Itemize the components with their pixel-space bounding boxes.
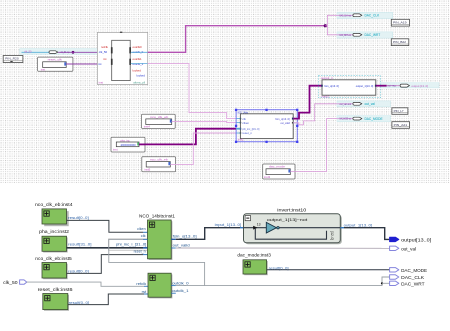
svg-text:inst5: inst5 — [144, 168, 150, 172]
pin box PIN_B22 — [391, 39, 409, 46]
svg-text:PIN_A19: PIN_A19 — [393, 20, 407, 24]
wire inst6 result to PLL rst — [68, 294, 144, 305]
svg-text:PIN_R20: PIN_R20 — [5, 57, 19, 61]
svg-text:DAC_WRT~out: DAC_WRT~out — [340, 33, 352, 37]
svg-text:PIN_L7: PIN_L7 — [394, 109, 404, 113]
wire NCO out_valid to out_val pin — [171, 247, 176, 249]
svg-text:NCO_14bits:inst1: NCO_14bits:inst1 — [139, 214, 176, 219]
label box phi_inc_i[31..0] — [109, 239, 148, 250]
selection handles — [235, 109, 299, 143]
wire through inverter — [244, 227, 267, 229]
svg-text:clk: clk — [141, 234, 146, 238]
svg-text:DAC_CLK: DAC_CLK — [401, 275, 424, 280]
svg-text:refclk: refclk — [136, 282, 146, 286]
svg-text:rst: rst — [103, 57, 106, 61]
output pin DAC_WRT — [390, 281, 399, 285]
wire nco_clk_eb upper to NCO clken — [172, 121, 236, 122]
collapse box — [245, 216, 250, 221]
svg-text:rst: rst — [142, 290, 147, 294]
schematic panel background — [0, 0, 450, 183]
block PLL bottom (pll:inst) — [148, 273, 172, 298]
svg-text:out_val: out_val — [365, 102, 376, 106]
wire PLL outclk_0 feedback to NCO clk — [143, 238, 148, 240]
output pin DAC_CLK — [390, 275, 399, 279]
svg-text:inst: inst — [99, 81, 104, 85]
block NCO_14bits:inst1 — [148, 220, 173, 260]
wire invert to output pin — [340, 227, 344, 229]
svg-text:out_val: out_val — [401, 247, 416, 252]
NCO selection edge wire stubs — [236, 119, 297, 133]
block nco_clk_eb:inst4 — [42, 209, 69, 226]
arrowhead — [253, 226, 257, 230]
svg-text:locked: locked — [133, 69, 142, 73]
svg-text:DAC_MODE: DAC_MODE — [401, 268, 427, 273]
wire output_1 to io buffer — [376, 85, 387, 87]
output pin output[13..0] — [390, 237, 399, 241]
wire NCO fsin_o to invert input — [171, 238, 176, 240]
svg-text:DAC_WRT: DAC_WRT — [365, 33, 381, 37]
block NCO_14bits (selected) — [235, 109, 299, 143]
svg-text:reset_clk: reset_clk — [48, 58, 63, 62]
wire pha_inc bus to NCO phi_inc — [139, 143, 145, 145]
svg-text:phi_inc_i[31..0]: phi_inc_i[31..0] — [242, 127, 259, 131]
pin box PIN_R20 — [3, 56, 23, 63]
svg-text:output_1[13..0]: output_1[13..0] — [344, 223, 373, 227]
svg-text:13: 13 — [257, 223, 261, 227]
svg-text:result[31..0]: result[31..0] — [68, 243, 91, 247]
svg-text:reset_n: reset_n — [134, 249, 146, 253]
svg-text:outclk_1: outclk_1 — [172, 289, 189, 293]
svg-text:PIN_A21: PIN_A21 — [394, 123, 408, 127]
svg-text:outclk_0: outclk_0 — [172, 281, 189, 285]
block nco_clk_eb (top schematic, upper) — [142, 114, 176, 128]
svg-text:inst: inst — [113, 148, 118, 152]
junction dot DAC net — [324, 24, 327, 27]
wire reset_clk to PLL rst — [66, 63, 108, 65]
block nco_clk_eb:inst5 — [42, 263, 68, 280]
svg-text:clken: clken — [242, 121, 249, 125]
block pha_inc constant — [111, 137, 145, 152]
pin box PIN_L7 — [392, 108, 408, 115]
svg-text:out~reg: out~reg — [388, 84, 396, 88]
svg-text:DAC_CLK: DAC_CLK — [365, 14, 381, 18]
svg-text:clken: clken — [137, 227, 146, 231]
inverter triangle U-not — [266, 222, 276, 233]
svg-text:clk_50: clk_50 — [99, 50, 108, 54]
svg-text:fsin_o[13..0]: fsin_o[13..0] — [324, 84, 339, 88]
PLL port stub outclk_1 — [171, 292, 176, 294]
svg-text:result[0..0]: result[0..0] — [68, 216, 89, 220]
output pin DAC_MODE — [390, 268, 399, 272]
svg-text:nco_clk_eb: nco_clk_eb — [150, 158, 168, 162]
svg-text:altera_pll: altera_pll — [133, 81, 145, 85]
svg-text:outclk1: outclk1 — [133, 57, 143, 61]
wire dac_mode to DAC_MODE pin — [267, 269, 390, 271]
svg-text:locked: locked — [137, 74, 146, 78]
block PLL (clk_pll) — [97, 32, 147, 85]
svg-text:fsin_o[13..0]: fsin_o[13..0] — [173, 234, 197, 238]
wire inst4 result to NCO clken — [67, 220, 144, 232]
pll pin stubs — [111, 47, 113, 53]
svg-text:DAC_CLK~out: DAC_CLK~out — [340, 13, 352, 17]
block reset_clk:inst6 — [43, 294, 69, 311]
svg-text:phi_inc_i_[31..0]: phi_inc_i_[31..0] — [116, 242, 146, 246]
svg-text:DAC_MODE~out: DAC_MODE~out — [340, 117, 352, 121]
block reset_clk (inst) — [38, 57, 73, 71]
svg-text:reset_clk:inst6: reset_clk:inst6 — [38, 287, 74, 292]
io buffer clk_50 — [49, 51, 58, 54]
wire nco_clk_eb lower to NCO reset_n — [170, 133, 236, 164]
NCO port stubs — [240, 118, 242, 119]
wire clk_50 to PLL refclk — [27, 282, 144, 286]
wire clk_50 from pin to buffer — [22, 51, 50, 53]
svg-text:invert:inst10: invert:inst10 — [277, 207, 307, 212]
net highlight band clk_50 — [20, 49, 112, 55]
io buffer DAC_CLK — [353, 14, 362, 17]
svg-text:DAC_WRT: DAC_WRT — [401, 282, 425, 287]
pin box PIN_A21 — [392, 122, 410, 129]
net highlight band DAC_MODE — [337, 116, 391, 122]
pin box PIN_A19 — [391, 19, 409, 26]
net highlight band DAC_CLK — [337, 12, 393, 18]
svg-text:out_valid: out_valid — [280, 121, 290, 125]
svg-text:output_1[13]~not: output_1[13]~not — [267, 217, 309, 222]
svg-text:refclk: refclk — [101, 45, 108, 49]
svg-text:PIN_B22: PIN_B22 — [393, 40, 406, 44]
svg-text:clk_50: clk_50 — [3, 280, 18, 285]
svg-text:nco_clk_eb:inst5: nco_clk_eb:inst5 — [35, 256, 72, 261]
net highlight band DAC_WRT — [337, 32, 393, 38]
svg-text:rst: rst — [98, 62, 101, 66]
wire clk_50 buffer to PLL refclk — [58, 51, 97, 53]
io buffer output — [400, 84, 409, 87]
io buffer DAC_WRT — [353, 33, 362, 36]
wire branch to DAC_CLK — [325, 25, 327, 27]
svg-text:output_1[13..0]: output_1[13..0] — [356, 84, 374, 88]
block dac_mode (top schematic) — [263, 164, 295, 179]
svg-text:clk_50: clk_50 — [24, 50, 32, 54]
wire branch to DAC_WRT — [327, 26, 353, 35]
wire inst2 result bus to NCO phi_inc (thick) — [67, 247, 144, 249]
svg-text:output[13..0]: output[13..0] — [401, 238, 431, 243]
output pin out_val — [390, 246, 399, 250]
bypass rail [12..0] — [255, 228, 326, 240]
svg-text:out_valid: out_valid — [173, 244, 190, 248]
svg-text:out_val~out: out_val~out — [340, 102, 352, 106]
svg-text:dac_mode:inst3: dac_mode:inst3 — [237, 253, 271, 258]
svg-text:20000000: 20000000 — [121, 143, 136, 147]
block invert:inst10 container — [244, 214, 342, 245]
svg-text:inst1: inst1 — [238, 138, 244, 142]
svg-text:inst3: inst3 — [264, 175, 270, 179]
net highlight band output — [381, 83, 439, 88]
svg-text:inst4: inst4 — [144, 124, 150, 128]
junction dot on clk_50 net — [72, 51, 75, 54]
junction dot DAC_WRT — [381, 282, 383, 284]
svg-text:reset_n: reset_n — [242, 131, 252, 135]
net highlight band out_val — [337, 101, 391, 107]
wire PLL outclk_1 to NCO clk — [131, 63, 148, 65]
svg-text:dac_mode: dac_mode — [269, 165, 285, 169]
wire NCO out_valid — [293, 104, 354, 125]
block dac_mode:inst3 — [243, 260, 268, 275]
block nco_clk_eb (top schematic, lower) — [142, 157, 176, 172]
svg-text:inst: inst — [41, 67, 46, 71]
svg-text:output [13..0]: output [13..0] — [412, 84, 429, 88]
svg-text:nco_clk_eb:inst4: nco_clk_eb:inst4 — [35, 202, 73, 207]
svg-text:input_1[13..0]: input_1[13..0] — [215, 223, 242, 227]
wire dac_mode to DAC_MODE row — [290, 119, 354, 172]
block output_1 (selected, cyan dashes) — [318, 76, 380, 99]
svg-text:inst10: inst10 — [322, 94, 330, 98]
wire NCO fsin_o to output_1 block (thick bus) — [293, 86, 322, 119]
svg-text:[12..0]: [12..0] — [330, 231, 334, 240]
block pha_inc:inst2 — [42, 236, 68, 252]
wire PLL outclk_0 to DAC_CLK/DAC_WRT rows — [131, 51, 148, 53]
svg-text:DAC_MODE: DAC_MODE — [365, 117, 383, 121]
svg-text:outclk0: outclk0 — [133, 45, 143, 49]
wire PLL outclk_0 to DAC_CLK / DAC_WRT pins — [171, 285, 176, 287]
wire output stub to buffer — [387, 85, 402, 87]
svg-text:nco_clk_eb: nco_clk_eb — [150, 115, 168, 119]
svg-text:pha_inc:inst2: pha_inc:inst2 — [39, 229, 70, 234]
wire inst5 result to NCO reset_n — [67, 255, 144, 274]
